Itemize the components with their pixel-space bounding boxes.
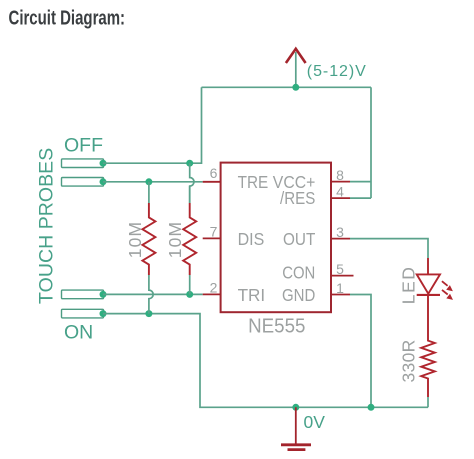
- wire R2 top lead: [189, 186, 191, 203]
- resistor R1 (10M): [142, 203, 155, 275]
- wire R2 bottom lead to pin2 row: [189, 275, 191, 294]
- wire pin 1 to ground rail: [350, 295, 371, 408]
- node probe P1 dot: [100, 160, 107, 167]
- svg-text:6: 6: [210, 165, 218, 181]
- wire probe P2 to pin 6: [103, 181, 203, 183]
- wire pin4 to right vertical: [350, 197, 371, 199]
- page title: [9, 6, 126, 29]
- resistor R2 (10M): [183, 203, 196, 275]
- ground symbol: [281, 407, 311, 449]
- svg-text:(5-12)V: (5-12)V: [307, 63, 367, 80]
- svg-text:TOUCH PROBES: TOUCH PROBES: [35, 148, 57, 304]
- node probe P2 dot: [100, 178, 107, 185]
- pin 6 stub: [203, 181, 221, 183]
- node pin1/rail junction dot: [368, 404, 375, 411]
- node R1 top junction dot: [145, 178, 152, 185]
- touch probe pad P4 (ON row): [62, 309, 104, 318]
- svg-text:OUT: OUT: [283, 229, 316, 249]
- svg-text:LED: LED: [399, 265, 419, 304]
- node ground junction dot: [292, 404, 299, 411]
- svg-text:Circuit Diagram:: Circuit Diagram:: [9, 6, 126, 29]
- svg-text:GND: GND: [282, 285, 315, 305]
- svg-text:10M: 10M: [165, 221, 185, 258]
- touch probe pad P3 (pin2 row): [62, 290, 104, 299]
- wire right vertical from rail to pins 8/4: [370, 87, 372, 198]
- wire top power rail: [202, 86, 372, 88]
- touch probe pad P1 (OFF top): [62, 159, 104, 168]
- resistor R3 (330R): [421, 324, 435, 397]
- svg-text:330R: 330R: [399, 339, 419, 382]
- wire pin8 to right vertical: [350, 181, 371, 183]
- svg-text:3: 3: [336, 224, 344, 240]
- wire probe P3 to pin 2: [103, 293, 203, 295]
- touch probe pad P2 (pin6 row): [62, 178, 104, 187]
- svg-text:5: 5: [336, 261, 344, 277]
- wire OFF node down to R2 with hop over pin6 wire: [190, 163, 194, 203]
- node OFF junction dot: [186, 160, 193, 167]
- op IC U1 NE555 body: [221, 163, 331, 313]
- wire probe P4 along ON row to bottom rail: [103, 314, 428, 408]
- svg-text:0V: 0V: [304, 412, 326, 432]
- pin 5 stub: [331, 275, 354, 277]
- wire R3 bottom to rail: [427, 397, 429, 407]
- pin 4 stub: [331, 197, 350, 199]
- wire pin 3 to LED branch: [350, 239, 428, 258]
- LED D1 symbol: [417, 258, 453, 324]
- svg-text:OFF: OFF: [64, 135, 103, 157]
- svg-text:2: 2: [210, 280, 218, 296]
- pin 8 stub: [331, 181, 350, 183]
- pin 1 stub: [331, 294, 350, 296]
- pin 3 stub: [331, 238, 350, 240]
- node probe P4 dot: [100, 310, 107, 317]
- svg-text:10M: 10M: [125, 221, 145, 258]
- wire left vertical from rail to OFF node: [190, 87, 202, 163]
- svg-text:ON: ON: [64, 322, 93, 344]
- svg-text:TRI: TRI: [238, 285, 266, 305]
- svg-text:1: 1: [336, 280, 344, 296]
- svg-text:8: 8: [336, 167, 344, 183]
- pin 2 stub: [203, 293, 221, 295]
- wire R1 top lead from pin6 row: [148, 182, 150, 203]
- svg-text:DIS: DIS: [238, 229, 265, 249]
- node R2 bottom junction dot: [186, 291, 193, 298]
- svg-text:7: 7: [210, 224, 218, 240]
- svg-text:4: 4: [336, 183, 344, 199]
- svg-text:/RES: /RES: [280, 188, 315, 208]
- power supply arrow symbol: [286, 49, 306, 88]
- node VCC junction dot: [292, 84, 299, 91]
- wire R1 bottom lead with hop over pin2 wire, to ON row: [149, 275, 153, 314]
- wire probe P1 to OFF node: [103, 162, 190, 164]
- node R1 bottom junction dot: [145, 310, 152, 317]
- svg-text:CON: CON: [282, 263, 315, 283]
- pin 7 stub: [203, 237, 221, 239]
- svg-text:TRE: TRE: [238, 172, 269, 192]
- node probe P3 dot: [100, 291, 107, 298]
- svg-text:NE555: NE555: [248, 316, 305, 338]
